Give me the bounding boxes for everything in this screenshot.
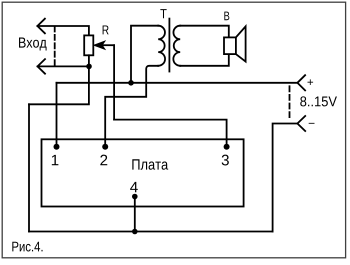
label R [103,25,109,34]
node input top wire [38,26,89,35]
wire left loop down [28,104,30,231]
label + [308,79,314,85]
junction dot pin 3 [224,144,230,150]
junction dot pin 4 on bottom bus [132,229,138,235]
transformer T core [168,19,170,72]
junction dot pin 1 [54,144,60,150]
wire plus bus [57,82,298,84]
transformer T secondary winding [173,26,180,66]
wire bus corner down to pin 1 [56,83,58,147]
transformer T primary winding [158,26,165,66]
terminal + arrowhead [297,75,305,90]
node input bottom wire [38,65,89,67]
input bottom arrowhead [38,59,46,74]
label B (speaker) [224,12,229,21]
wire wiper lead [102,44,115,46]
input top arrowhead [37,19,45,34]
label pin 4 [130,182,138,192]
junction dot pin 2 [102,144,108,150]
junction dot below R [86,64,92,70]
wire primary bottom to pin 2 [105,66,158,147]
board (Плата) rectangle [42,139,244,206]
label 8..15V [300,96,337,106]
wire R bottom lead [88,55,90,66]
junction dot pin 4 [132,194,138,200]
speaker B coil box [224,37,236,54]
wire input dashed pair link [54,27,56,67]
label pin 2 [100,155,107,166]
label pin 1 [52,155,59,165]
speaker B horn [236,26,246,61]
label pin 3 [222,155,229,166]
junction dot primary top on plus bus [128,80,134,86]
wire wiper down [113,45,115,119]
wire secondary top to speaker [180,26,229,38]
label minus [309,122,315,125]
resistor R1 body [84,35,93,55]
wire pin 4 to bottom bus [134,197,136,232]
wire dashed between + and - terminals [289,86,291,119]
wire bottom bus [29,231,273,233]
wire to pin 3 [114,120,227,147]
wire secondary bottom to speaker [180,54,229,66]
wire primary top to bus junction [131,26,158,83]
label T [160,9,166,18]
terminal - arrowhead [297,116,305,131]
wire right loop up to minus terminal [273,124,298,232]
wire junction below R to left side [29,66,89,104]
label Вход [19,38,47,51]
label Плата [132,159,168,169]
wiper arrowhead of R [94,41,104,49]
label Рис.4. [12,242,42,252]
